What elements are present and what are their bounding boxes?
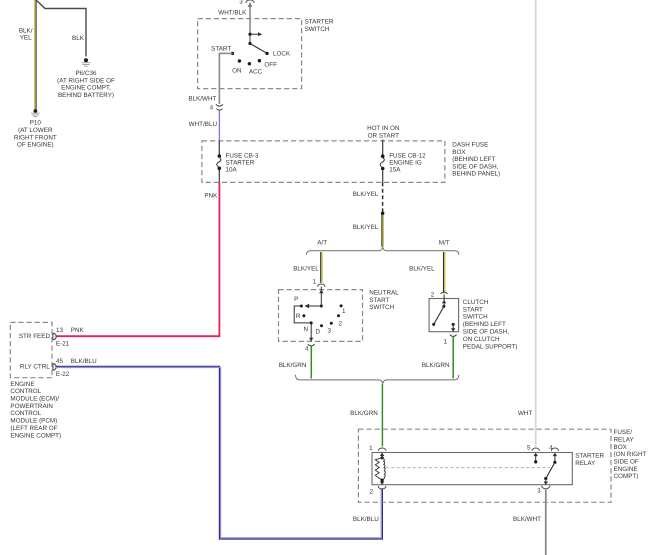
svg-text:COMPT): COMPT) — [614, 473, 639, 480]
ECM pin 45 connector — [53, 364, 56, 371]
svg-text:(AT LOWER: (AT LOWER — [18, 127, 53, 134]
svg-text:START: START — [369, 297, 389, 304]
svg-text:E-21: E-21 — [56, 341, 70, 348]
wire PNK (fuse CB-3 to ECM pin 13) — [56, 182, 220, 336]
starter switch blade (to LOCK) — [248, 42, 266, 53]
svg-text:3: 3 — [537, 487, 541, 494]
connector pin 4 (neutral start switch) — [305, 344, 315, 352]
svg-text:BLK/GRN: BLK/GRN — [422, 362, 450, 369]
svg-text:DASH FUSE: DASH FUSE — [452, 142, 488, 149]
svg-text:LOCK: LOCK — [273, 51, 291, 58]
label P6/C36 (AT RIGHT SIDE OF ENGINE COMPT, BEHIND BATTERY) — [57, 70, 115, 99]
wire from START contact down (grey) — [219, 53, 232, 104]
svg-text:POWERTRAIN: POWERTRAIN — [10, 403, 53, 410]
svg-text:BEHIND BATTERY): BEHIND BATTERY) — [58, 92, 114, 99]
svg-text:CONTROL: CONTROL — [10, 410, 41, 417]
connector pin 1 (clutch start switch) — [443, 335, 456, 346]
svg-text:PNK: PNK — [204, 193, 218, 200]
wire BLK/YEL dashed (below fuse CB-12) — [382, 182, 384, 211]
svg-text:(BEHIND LEFT: (BEHIND LEFT — [463, 321, 506, 328]
relay switch blade (pin 4 to pin 3) — [544, 453, 558, 485]
fuse/relay box — [358, 429, 611, 502]
svg-text:ON CLUTCH: ON CLUTCH — [463, 336, 500, 343]
svg-text:MODULE (PCM): MODULE (PCM) — [10, 418, 57, 425]
svg-text:BOX: BOX — [614, 444, 628, 451]
neutral start switch wiper arrow to P — [304, 304, 321, 308]
svg-text:CLUTCH: CLUTCH — [463, 299, 489, 306]
svg-text:START: START — [211, 46, 231, 53]
relay pin 2 connector — [369, 486, 386, 495]
clutch switch contacts — [432, 323, 455, 326]
label NEUTRAL START SWITCH — [369, 290, 399, 312]
svg-text:ENGINE COMPT): ENGINE COMPT) — [10, 432, 61, 439]
svg-text:(AT RIGHT SIDE OF: (AT RIGHT SIDE OF — [57, 77, 115, 84]
svg-text:PEDAL SUPPORT): PEDAL SUPPORT) — [463, 343, 518, 350]
svg-text:BLK: BLK — [72, 35, 85, 42]
svg-text:3: 3 — [239, 0, 243, 5]
neutral start switch P-N link — [294, 306, 311, 323]
svg-text:ON: ON — [232, 67, 242, 74]
svg-text:13: 13 — [56, 327, 64, 334]
svg-text:BEHIND PANEL): BEHIND PANEL) — [452, 171, 500, 178]
label P10 (AT LOWER RIGHT FRONT OF ENGINE) — [14, 120, 57, 149]
starter relay box — [372, 453, 572, 485]
svg-text:BLK/YEL: BLK/YEL — [293, 265, 319, 272]
relay pin 3 connector — [537, 486, 550, 495]
svg-text:STR FEED: STR FEED — [19, 333, 51, 340]
wire BLK/GRN (merge to starter relay coil) — [381, 384, 383, 447]
label STARTER RELAY — [575, 452, 604, 466]
svg-text:A/T: A/T — [317, 239, 327, 246]
wire BLK to P6/C36 — [36, 0, 86, 57]
svg-text:SWITCH: SWITCH — [463, 314, 488, 321]
svg-text:(ON RIGHT: (ON RIGHT — [614, 451, 647, 458]
svg-text:4: 4 — [305, 346, 309, 353]
clutch switch input wire with arrow — [442, 295, 446, 308]
svg-text:OR START: OR START — [368, 133, 399, 140]
svg-text:STARTER: STARTER — [575, 452, 604, 459]
label 13 / E-21 — [56, 327, 70, 347]
relay coil — [375, 453, 385, 485]
svg-text:RELAY: RELAY — [614, 436, 635, 443]
label 45 / E-22 — [56, 358, 70, 378]
connector P6/C36 — [82, 58, 91, 66]
merge brace — [295, 375, 458, 384]
connector pin 2 (clutch start switch) — [431, 292, 448, 299]
wire WHT/BLK into starter switch — [249, 3, 251, 44]
wire BLK/YEL M/T branch — [444, 252, 445, 293]
svg-text:ENGINE COMPT,: ENGINE COMPT, — [61, 85, 111, 92]
svg-text:WHT/BLU: WHT/BLU — [189, 121, 218, 128]
relay pin 5 connector — [527, 444, 539, 451]
connector pin 1 (neutral start switch) — [312, 278, 325, 286]
svg-text:15A: 15A — [389, 166, 401, 173]
label FUSE/RELAY BOX (ON RIGHT SIDE OF ENGINE COMPT) — [614, 429, 647, 480]
svg-text:CONTROL: CONTROL — [10, 388, 41, 395]
svg-text:WHT: WHT — [518, 410, 532, 417]
switch position labels — [211, 46, 291, 76]
svg-text:E-22: E-22 — [56, 371, 70, 378]
svg-text:2: 2 — [431, 292, 435, 299]
svg-text:P: P — [294, 296, 298, 303]
label FUSE CB-3 STARTER 10A — [226, 153, 259, 174]
svg-text:(LEFT REAR OF: (LEFT REAR OF — [10, 425, 57, 432]
switch position contacts — [231, 52, 269, 66]
svg-text:45: 45 — [56, 358, 64, 365]
svg-text:MODULE (ECM)/: MODULE (ECM)/ — [10, 396, 59, 403]
svg-text:ENGINE: ENGINE — [614, 466, 638, 473]
svg-text:BLK/WHT: BLK/WHT — [188, 95, 216, 102]
neutral start switch input wire with arrow — [319, 287, 323, 308]
svg-text:1: 1 — [342, 308, 346, 315]
dash fuse box — [202, 141, 445, 183]
svg-text:1: 1 — [369, 445, 373, 452]
relay pin 4 connector — [549, 444, 559, 451]
fuse CB-3 circuit breaker — [217, 141, 221, 183]
starter switch wiper arrow — [248, 32, 262, 36]
label FUSE CB-12 ENGINE IG 15A — [389, 153, 426, 174]
label CLUTCH START SWITCH (BEHIND LEFT SIDE OF DASH, ON CLUTCH PEDAL SUPPORT) — [463, 299, 518, 350]
svg-text:ACC: ACC — [249, 68, 263, 75]
label HOT IN ON OR START — [367, 125, 400, 139]
neutral start switch box — [279, 290, 363, 342]
relay linkage (dashed) — [386, 467, 551, 469]
svg-text:BLK/BLU: BLK/BLU — [353, 516, 379, 523]
svg-text:R: R — [296, 313, 301, 320]
svg-text:FUSE/: FUSE/ — [614, 429, 633, 436]
svg-text:RLY CTRL: RLY CTRL — [20, 363, 50, 370]
svg-text:PNK: PNK — [71, 327, 85, 334]
svg-text:1: 1 — [312, 278, 316, 285]
splice junction node — [381, 211, 385, 215]
wire BLK/BLU (ECM pin 45 to relay pin 2) — [55, 366, 382, 539]
label DASH FUSE BOX (BEHIND LEFT SIDE OF DASH, BEHIND PANEL) — [452, 142, 500, 178]
svg-text:BLK/GRN: BLK/GRN — [350, 410, 378, 417]
svg-text:4: 4 — [210, 105, 214, 112]
svg-text:YEL: YEL — [20, 35, 32, 42]
svg-text:2: 2 — [369, 488, 373, 495]
neutral start switch output wire with arrow — [309, 323, 313, 341]
svg-text:M/T: M/T — [439, 239, 450, 246]
svg-text:OFF: OFF — [264, 62, 277, 69]
svg-text:3: 3 — [328, 328, 332, 335]
label ENGINE CONTROL MODULE (ECM)/ POWERTRAIN CONTROL MODULE (PCM) (LEFT REAR OF ENGINE COMPT) — [10, 381, 61, 439]
fuse CB-12 circuit breaker — [380, 154, 384, 182]
svg-text:HOT IN ON: HOT IN ON — [367, 125, 400, 132]
clutch start switch box — [429, 299, 459, 332]
svg-text:1: 1 — [443, 339, 447, 346]
svg-text:SIDE OF DASH,: SIDE OF DASH, — [463, 329, 509, 336]
svg-text:BLK/GRN: BLK/GRN — [279, 362, 307, 369]
svg-text:WHT/BLK: WHT/BLK — [218, 9, 247, 16]
svg-text:D: D — [316, 328, 321, 335]
svg-text:BLK/YEL: BLK/YEL — [353, 191, 379, 198]
wire into fuse CB-12 from HOT feed — [382, 140, 384, 155]
svg-text:START: START — [463, 306, 483, 313]
ground connector P10 — [31, 109, 40, 117]
clutch switch output wire with arrow — [451, 324, 455, 331]
wire BLK/YEL to A/T-M/T split — [382, 215, 383, 247]
svg-text:10A: 10A — [226, 166, 238, 173]
svg-text:BLK/BLU: BLK/BLU — [71, 358, 97, 365]
wire BLK/YEL to ground P10 — [35, 0, 36, 109]
svg-text:ENGINE: ENGINE — [10, 381, 34, 388]
svg-text:N: N — [304, 326, 309, 333]
pin 3 connector at top (starter switch feed) — [239, 0, 254, 7]
svg-text:NEUTRAL: NEUTRAL — [369, 290, 399, 297]
ECM pin 13 connector — [53, 333, 56, 340]
svg-text:RELAY: RELAY — [575, 460, 596, 467]
svg-text:5: 5 — [527, 444, 531, 451]
svg-text:BLK/YEL: BLK/YEL — [353, 224, 379, 231]
wire BLK/WHT (relay pin 3 to starter) — [545, 489, 547, 555]
svg-text:RIGHT FRONT: RIGHT FRONT — [14, 134, 57, 141]
neutral start switch position labels — [294, 296, 346, 335]
wire BLK/GRN (neutral start switch to merge) — [310, 346, 312, 379]
wire BLK/YEL A/T branch — [321, 252, 322, 283]
svg-text:SIDE OF: SIDE OF — [614, 459, 639, 466]
label BLK/YEL — [19, 27, 33, 41]
svg-text:SWITCH: SWITCH — [305, 26, 330, 33]
wire WHT (battery feed to relay pin 5) — [535, 0, 537, 447]
starter switch box — [198, 19, 302, 89]
ECM box — [10, 322, 52, 377]
wire WHT/BLU — [218, 110, 220, 141]
relay pin 1 connector — [369, 445, 386, 452]
svg-text:BLK/: BLK/ — [19, 27, 33, 34]
clutch switch blade (open) — [434, 306, 444, 324]
svg-text:SWITCH: SWITCH — [369, 304, 394, 311]
split brace A/T - M/T — [306, 247, 459, 255]
svg-text:P10: P10 — [30, 120, 42, 127]
svg-text:OF ENGINE): OF ENGINE) — [17, 142, 54, 149]
neutral start switch position contacts — [300, 304, 343, 327]
svg-text:2: 2 — [338, 320, 342, 327]
label STARTER SWITCH — [305, 19, 334, 33]
svg-text:SIDE OF DASH,: SIDE OF DASH, — [452, 163, 498, 170]
svg-text:BLK/YEL: BLK/YEL — [409, 265, 435, 272]
wire BLK/GRN (clutch start switch to merge) — [452, 336, 454, 378]
svg-text:(BEHIND LEFT: (BEHIND LEFT — [452, 156, 495, 163]
svg-text:BLK/WHT: BLK/WHT — [513, 516, 541, 523]
svg-text:STARTER: STARTER — [305, 19, 334, 26]
relay pin 5 contact — [534, 453, 538, 464]
svg-text:P6/C36: P6/C36 — [75, 70, 97, 77]
svg-text:BOX: BOX — [452, 149, 466, 156]
inline connector 4 — [210, 104, 223, 111]
